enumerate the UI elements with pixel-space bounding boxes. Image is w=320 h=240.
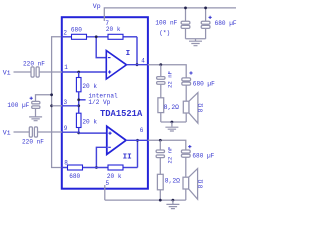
svg-text:5: 5 — [106, 180, 110, 187]
wire R680 II to R20k II — [83, 167, 109, 169]
wire Vi to C1 — [14, 71, 32, 73]
wire pin2 to bus — [52, 37, 62, 168]
capacitor 22 nF channel 1 — [160, 65, 162, 77]
wire C2 to pin 9 — [38, 131, 63, 133]
plus sign 680uF ch1 — [189, 71, 192, 74]
capacitor 22 nF channel 2 — [159, 140, 161, 150]
wire R20k I down to output node I — [136, 37, 138, 65]
svg-text:8,2Ω: 8,2Ω — [164, 104, 179, 111]
resistor 20k amp II feedback — [108, 165, 123, 170]
capacitor 100 uF — [32, 101, 40, 104]
wire supply caps bottom link — [186, 38, 206, 40]
pin 5 stub — [104, 185, 106, 200]
svg-text:22 nF: 22 nF — [167, 70, 174, 88]
capacitor 680 uF channel 1 — [182, 78, 191, 81]
capacitor 220 nF input 1 — [31, 67, 34, 77]
node internal 1/2 Vp stub — [79, 99, 86, 101]
junction output node II — [136, 139, 139, 142]
svg-text:20 k: 20 k — [82, 119, 97, 126]
junction ground tap ch1 — [171, 121, 174, 124]
svg-text:Vi: Vi — [3, 130, 11, 137]
svg-text:6: 6 — [140, 127, 144, 134]
resistor 8.2 ohm channel 2 — [157, 174, 163, 190]
capacitor 220 nF input 2 — [29, 127, 32, 137]
svg-text:3: 3 — [64, 99, 68, 106]
junction rail / 100nF — [184, 7, 187, 10]
svg-text:8Ω: 8Ω — [197, 178, 204, 188]
resistor 8.2 ohm channel 1 — [158, 98, 164, 113]
junction divider / pin9 row — [77, 132, 80, 135]
svg-text:9: 9 — [64, 125, 68, 132]
svg-text:220 nF: 220 nF — [23, 60, 45, 67]
wire R20k II up to output node II — [137, 140, 139, 167]
resistor 20k bias lower — [76, 113, 81, 127]
wire Vp rail — [104, 8, 236, 21]
wire pin3 — [52, 105, 62, 107]
junction bottom line / ground — [172, 199, 175, 202]
junction pin1 row / divider — [77, 71, 80, 74]
svg-text:680 µF: 680 µF — [192, 153, 214, 160]
capacitor 100 nF supply — [185, 8, 187, 21]
internal wire pin3 row — [62, 105, 79, 107]
svg-text:I: I — [126, 50, 131, 58]
junction bus / 100uF — [50, 93, 53, 96]
capacitor 680 uF supply — [205, 8, 207, 21]
svg-text:680: 680 — [71, 26, 82, 33]
junction row2 / boucherot 2 — [159, 139, 162, 142]
svg-text:1/2 Vp: 1/2 Vp — [88, 99, 110, 106]
wire output row 2 — [148, 140, 186, 150]
op-amp U1 (I) — [106, 51, 126, 79]
plus sign 100uF — [30, 97, 33, 100]
wire pin8 to R680 II — [62, 167, 68, 169]
wire R20k I right — [123, 36, 137, 38]
resistor 680 amp II — [68, 165, 83, 170]
plus sign 680uF ch2 — [188, 145, 191, 148]
wire bottom ground line — [105, 199, 186, 201]
wire 100uF to bus — [36, 95, 52, 102]
junction feedback node II — [95, 166, 98, 169]
svg-text:100 µF: 100 µF — [7, 102, 29, 109]
svg-text:1: 1 — [64, 64, 68, 71]
internal bias divider — [78, 72, 80, 78]
internal wire feedback amp I — [96, 37, 106, 58]
junction output node I — [136, 63, 139, 66]
ground bottom — [172, 200, 174, 204]
ground supply — [195, 39, 197, 41]
svg-text:(*): (*) — [159, 30, 170, 37]
svg-text:8Ω: 8Ω — [198, 102, 205, 112]
junction bus / pin3 — [50, 104, 53, 107]
junction row1 / boucherot 1 — [159, 63, 162, 66]
junction feedback node I — [95, 35, 98, 38]
svg-text:680: 680 — [69, 173, 80, 180]
svg-text:680 µF: 680 µF — [215, 20, 237, 27]
internal wire row pin9 — [62, 131, 79, 133]
internal wire feedback amp II — [96, 147, 106, 167]
wire Vi2 to C2 — [14, 131, 30, 133]
speaker channel 2 — [183, 177, 189, 189]
svg-text:680 µF: 680 µF — [193, 81, 215, 88]
junction bottom line / boucherot 2 — [159, 199, 162, 202]
wire R20k II right — [123, 167, 138, 169]
svg-text:22 nF: 22 nF — [166, 146, 173, 164]
svg-text:Vi: Vi — [3, 69, 11, 76]
internal wire output amp I — [127, 64, 149, 66]
wire boucherot 1 to speaker — [161, 121, 186, 123]
resistor 20k bias upper — [76, 78, 81, 92]
capacitor 680 uF channel 2 — [181, 150, 190, 153]
wire output row 1 — [148, 65, 186, 78]
IC box TDA1521A — [62, 17, 148, 189]
svg-text:220 nF: 220 nF — [22, 138, 44, 145]
internal wire output amp II — [126, 139, 148, 141]
wire C1 to pin 1 — [39, 71, 62, 73]
resistor 680 amp I — [72, 34, 87, 39]
svg-text:20 k: 20 k — [107, 173, 122, 180]
svg-text:100 nF: 100 nF — [155, 20, 177, 27]
svg-text:2: 2 — [63, 29, 67, 36]
svg-text:8,2Ω: 8,2Ω — [165, 177, 180, 184]
svg-text:4: 4 — [141, 57, 145, 64]
svg-text:20 k: 20 k — [82, 83, 97, 90]
svg-text:II: II — [123, 153, 132, 161]
speaker channel 1 — [183, 101, 189, 113]
plus sign supply cap — [209, 16, 212, 19]
junction divider / pin3 — [77, 104, 80, 107]
svg-text:TDA1521A: TDA1521A — [100, 109, 143, 119]
svg-text:Vp: Vp — [93, 3, 101, 10]
internal wire row pin1 — [62, 71, 106, 73]
wire R680 I to R20k I — [87, 36, 109, 38]
svg-text:20 k: 20 k — [106, 26, 121, 33]
resistor 20k amp I feedback — [108, 34, 123, 39]
op-amp U2 (II) — [107, 126, 126, 154]
wire pin2 to R680 I — [62, 36, 72, 38]
ground channel 1 — [171, 122, 173, 127]
ground 100uF — [29, 117, 42, 121]
junction node 1/2 Vp — [77, 98, 80, 101]
junction rail / 680uF — [204, 7, 207, 10]
